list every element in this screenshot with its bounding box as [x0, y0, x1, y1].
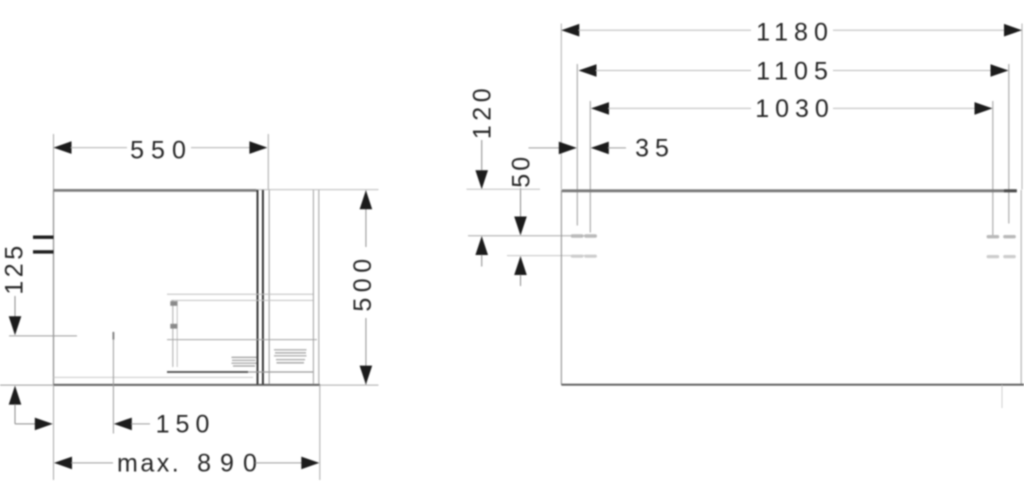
dimension 1030 line left segment	[608, 107, 751, 109]
extension line right of dim 550	[267, 134, 269, 190]
dimension 150 leader right	[131, 423, 150, 425]
drawer bottom light segment	[248, 371, 313, 373]
cabinet front top thick line	[562, 189, 1017, 192]
dimension 550 line left segment	[71, 147, 128, 149]
dimension 1180 line left segment	[578, 29, 751, 31]
svg-text:1105: 1105	[756, 57, 834, 85]
drawer mid shelf line	[167, 339, 317, 341]
wall bracket dash lower	[33, 250, 54, 253]
dimension 500 arrow up	[360, 190, 373, 209]
dimension max890 line right segment	[255, 462, 302, 464]
drawer interior top line 1	[167, 293, 313, 295]
dimension 50 arrow up	[514, 256, 527, 275]
max890 extension line left	[53, 385, 55, 480]
dimension 50 lower stem	[520, 275, 522, 286]
dimension max890 line left segment	[71, 462, 113, 464]
top edge reference line left of box	[467, 188, 541, 190]
front panel dark line 2	[262, 190, 264, 384]
dimension 120 arrow up	[475, 236, 488, 255]
dimension 1105 arrow left	[579, 64, 597, 77]
front panel dark line 1	[257, 190, 259, 384]
dimension 50 upper stem	[520, 188, 522, 217]
svg-text:500: 500	[349, 253, 377, 311]
dimension 1180 line right segment	[833, 29, 1005, 31]
cabinet bottom thick line	[54, 384, 321, 386]
faint extension below box right	[1001, 385, 1003, 408]
dimension 35 leader right	[608, 147, 626, 149]
mounting hole right inner row1	[987, 235, 1000, 238]
drain centreline dark top	[112, 332, 114, 340]
baseline extension right toward dim 500	[320, 384, 379, 386]
front panel inner thin line	[268, 190, 270, 384]
dimension 150 leader left	[15, 423, 35, 425]
dimension 35 arrow left	[591, 142, 609, 155]
hatched block B lower marks	[276, 360, 305, 363]
dimension 550 line right segment	[191, 147, 250, 149]
drawer interior top line 2	[171, 299, 313, 301]
dimension max890 arrow right	[301, 457, 319, 470]
drain centreline extension	[112, 332, 114, 434]
drain height reference line	[9, 335, 77, 337]
mounting hole right inner row2	[987, 255, 1000, 258]
dimension 1030 arrow left	[591, 102, 609, 115]
svg-text:35: 35	[635, 135, 675, 163]
dimension 120 upper stem	[481, 140, 483, 170]
dimension 125 upper stem	[14, 296, 16, 317]
drawer rail tick upper	[170, 301, 177, 306]
drawer front thin line 2	[318, 190, 320, 384]
hatched block A stripes	[232, 357, 257, 366]
cabinet floor light line	[54, 376, 254, 378]
max890 extension line right	[319, 385, 321, 480]
drawer bottom dark segment	[167, 371, 248, 373]
hole row 2 reference line	[507, 255, 590, 257]
mounting hole right outer row1	[1003, 235, 1016, 238]
dimension 1030 arrow right	[975, 102, 993, 115]
cabinet front box bottom edge	[561, 384, 1024, 386]
mounting hole left outer row2	[571, 255, 584, 258]
cabinet top thick line	[54, 189, 258, 192]
dimension 500 lower stem	[365, 318, 367, 384]
dimension 125 arrow down	[9, 316, 22, 335]
hole row 1 reference line	[468, 235, 589, 237]
dimension 1180 arrow left	[561, 24, 579, 37]
svg-text:150: 150	[156, 411, 216, 439]
dimension 1180 arrow right	[1004, 24, 1022, 37]
dimension 120 arrow down	[475, 170, 488, 189]
svg-text:120: 120	[469, 84, 497, 139]
dimension 1030 line right segment	[833, 107, 976, 109]
dimension 125 lower stem	[14, 404, 16, 424]
dimension 550 arrow left	[54, 141, 72, 154]
dimension 150 arrow right	[35, 418, 53, 431]
extension line left of dim 1105 / outer hole column left	[576, 64, 578, 226]
svg-text:50: 50	[507, 154, 535, 188]
dimension 35 leader left	[529, 147, 561, 149]
extension line left of dim 550	[53, 134, 55, 190]
svg-text:max. 890: max. 890	[117, 450, 266, 478]
dimension 150 arrow left	[114, 418, 132, 431]
dimension 500 upper stem	[365, 191, 367, 248]
dimension 1105 line right segment	[833, 70, 992, 72]
wall bracket dash upper	[33, 236, 54, 239]
svg-text:550: 550	[130, 136, 193, 164]
dimension 120 lower stem	[481, 255, 483, 267]
svg-text:125: 125	[1, 242, 29, 294]
drawer back wall line 1	[172, 300, 174, 367]
extension line right of dim 1105 / outer hole column right	[1008, 64, 1010, 224]
svg-text:1180: 1180	[756, 19, 834, 47]
dimension 550 arrow right	[249, 141, 267, 154]
dimension 35 arrow right	[559, 142, 577, 155]
dimension 1105 line left segment	[596, 70, 752, 72]
hatched block B stripes	[274, 350, 307, 356]
cabinet top thin extension toward dim 500	[256, 189, 379, 191]
dimension 500 arrow down	[360, 366, 373, 385]
mounting hole right outer row2	[1003, 255, 1016, 258]
drawer rail tick lower	[170, 324, 177, 329]
baseline left of cabinet	[0, 384, 54, 386]
extension line right of dim 1030 / inner hole column right	[992, 101, 994, 237]
dimension max890 arrow left	[54, 457, 72, 470]
cabinet front box left edge	[560, 190, 562, 385]
drawer back wall line 2	[176, 300, 178, 367]
mounting hole left inner row2	[584, 255, 597, 258]
mounting hole left inner row1	[584, 234, 597, 237]
cabinet front box right edge	[1020, 190, 1022, 385]
extension line right of dim 1180	[1021, 24, 1023, 190]
extension line left of dim 1030 / inner hole column left	[589, 101, 591, 233]
drawer front thin line 1	[312, 190, 314, 384]
cabinet front top dark right segment	[1004, 189, 1017, 192]
extension line left of dim 1180	[560, 24, 562, 190]
dimension 50 arrow down	[514, 217, 527, 236]
mounting hole left outer row1	[571, 234, 584, 237]
dimension 1105 arrow right	[991, 64, 1009, 77]
svg-text:1030: 1030	[755, 95, 835, 123]
dimension 125 arrow up	[9, 386, 22, 405]
cabinet left (back) edge	[53, 190, 55, 385]
